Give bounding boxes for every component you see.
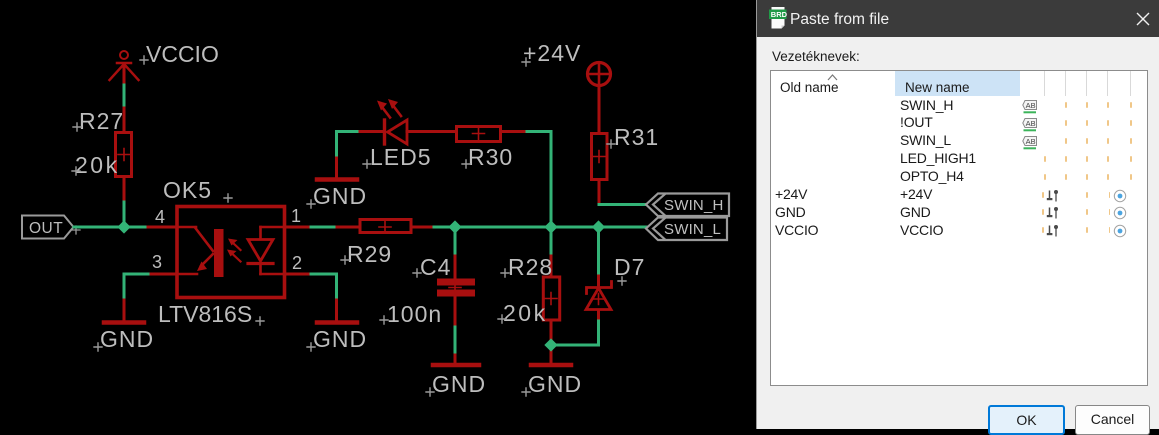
label C4 <box>413 254 451 280</box>
resistor R28 <box>543 277 559 320</box>
node E junction <box>544 338 557 351</box>
resistor R30 <box>457 127 528 142</box>
ground GND3 <box>307 158 367 209</box>
label +24V <box>522 40 581 66</box>
svg-text:R27: R27 <box>79 108 124 134</box>
op-amp U1 : optocoupler OK5 body <box>177 207 285 298</box>
svg-text:4: 4 <box>155 207 165 227</box>
diode D7 zener <box>586 282 612 310</box>
svg-text:LED5: LED5 <box>370 144 432 170</box>
label 20k <box>72 152 120 178</box>
label R29 <box>341 241 392 267</box>
label 20k R28 <box>498 300 548 326</box>
svg-text:AB: AB <box>1026 137 1036 146</box>
label R28 <box>501 254 553 280</box>
ground GND2 <box>307 300 367 352</box>
power symbol +24V <box>588 63 611 86</box>
power symbol VCCIO <box>110 51 139 85</box>
wire D7 to node E <box>552 310 599 345</box>
svg-text:100n: 100n <box>387 301 442 327</box>
OK5 coupling arrows <box>227 239 241 262</box>
table <box>770 70 1148 386</box>
svg-text:GND: GND <box>313 326 367 352</box>
svg-text:OUT: OUT <box>29 220 63 237</box>
OK5 internal output diode <box>248 227 283 274</box>
svg-text:R30: R30 <box>468 144 513 170</box>
node D junction <box>592 220 605 233</box>
pin 1 stub <box>285 206 312 227</box>
resistor R27 <box>116 133 132 177</box>
OK5 internal LED <box>179 227 224 277</box>
wire D7 branch <box>597 227 600 287</box>
wire pin 3 to GND <box>124 274 148 300</box>
wire +24V to R31 <box>598 86 601 133</box>
resistor R31 <box>592 134 608 180</box>
OK button <box>988 405 1065 435</box>
svg-text:GND: GND <box>432 371 486 397</box>
sort caret <box>827 73 838 81</box>
svg-text:20k: 20k <box>503 300 548 326</box>
ground GND1 <box>94 300 154 352</box>
svg-text:AB: AB <box>1026 101 1036 110</box>
wire pin 2 to GND <box>311 274 337 300</box>
net flag SWIN_L <box>646 218 727 241</box>
ground GND5 <box>522 365 582 397</box>
label LTV816S <box>158 301 264 327</box>
label OK5 <box>163 177 232 203</box>
wire VCCIO to R27 <box>123 85 126 131</box>
svg-text:R31: R31 <box>614 124 659 150</box>
dialog label <box>772 49 860 64</box>
svg-text:AB: AB <box>1026 119 1036 128</box>
net flag OUT <box>22 216 80 239</box>
svg-text:D7: D7 <box>614 254 645 280</box>
wire R31 to SWIN_H <box>599 181 646 205</box>
wire R28 branch <box>550 256 553 276</box>
ground GND4 <box>426 355 486 397</box>
LED LED5 <box>360 99 455 144</box>
label 100n <box>380 301 442 327</box>
svg-text:BRD: BRD <box>771 10 788 19</box>
wire LED branch left <box>337 132 361 159</box>
svg-text:2: 2 <box>292 253 302 273</box>
svg-text:R29: R29 <box>347 241 392 267</box>
svg-text:SWIN_H: SWIN_H <box>664 197 724 214</box>
label LED5 <box>363 144 432 170</box>
svg-text:OK5: OK5 <box>163 177 212 203</box>
label R27 <box>73 108 124 134</box>
label R31 <box>607 124 659 150</box>
pin 2 stub <box>285 253 312 274</box>
pin 3 stub <box>148 252 177 274</box>
svg-text:R28: R28 <box>508 254 553 280</box>
net flag SWIN_H <box>646 194 729 217</box>
wire R30 to R28 branch <box>527 132 551 257</box>
pin 4 stub <box>148 207 177 227</box>
wire R28 to GND <box>550 322 553 365</box>
svg-text:SWIN_L: SWIN_L <box>664 221 721 238</box>
svg-text:20k: 20k <box>75 152 120 178</box>
BRD file icon <box>768 6 788 29</box>
title bar <box>757 0 1159 37</box>
svg-text:C4: C4 <box>420 254 451 280</box>
wire pin 1 to R29 <box>311 226 337 229</box>
svg-text:LTV816S: LTV816S <box>158 301 252 327</box>
svg-text:1: 1 <box>291 206 301 226</box>
wire main net <box>434 226 646 229</box>
wire C4 to GND <box>454 297 457 356</box>
resistor R29 <box>337 220 434 234</box>
schematic canvas <box>0 0 756 429</box>
label D7 <box>614 254 645 285</box>
wire OUT to pin 4 <box>74 226 148 229</box>
wire R27 to node A <box>123 178 126 227</box>
label VCCIO <box>140 41 219 67</box>
svg-text:+24V: +24V <box>523 40 581 66</box>
svg-text:VCCIO: VCCIO <box>146 41 219 67</box>
svg-text:GND: GND <box>313 183 367 209</box>
node C junction <box>448 220 461 233</box>
node B junction <box>544 220 557 233</box>
capacitor C4 <box>437 279 475 297</box>
dialog window Paste from file <box>756 0 1159 429</box>
svg-text:GND: GND <box>100 326 154 352</box>
label R30 <box>462 144 513 170</box>
svg-text:GND: GND <box>528 371 582 397</box>
svg-text:3: 3 <box>152 252 162 272</box>
header new name <box>895 71 1020 96</box>
wire C4 branch <box>454 227 457 279</box>
node A junction <box>117 220 130 233</box>
Cancel button <box>1075 405 1150 435</box>
